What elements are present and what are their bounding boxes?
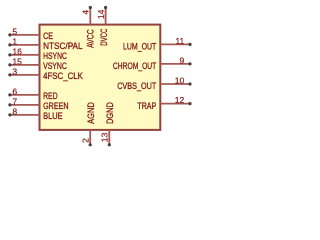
svg-text:7: 7 (12, 96, 17, 106)
pin 9 CHROM_OUT (113, 56, 192, 71)
pin 15 VSYNC (8, 56, 67, 70)
pin 7 GREEN (8, 96, 68, 110)
pin 13 DGND (99, 102, 115, 146)
svg-text:2: 2 (81, 138, 91, 143)
svg-text:BLUE: BLUE (43, 110, 63, 121)
pin 6 RED (8, 86, 57, 100)
svg-text:AGND: AGND (85, 102, 96, 124)
svg-text:10: 10 (175, 76, 185, 86)
svg-text:CHROM_OUT: CHROM_OUT (113, 60, 157, 71)
svg-text:11: 11 (175, 36, 184, 46)
pin 4 AVCC (81, 6, 96, 48)
pin 5 CE (8, 26, 53, 40)
svg-text:LUM_OUT: LUM_OUT (123, 40, 157, 51)
svg-text:CVBS_OUT: CVBS_OUT (117, 80, 156, 91)
pin 2 AGND (81, 102, 96, 146)
svg-text:4FSC_CLK: 4FSC_CLK (43, 70, 83, 81)
pin 10 CVBS_OUT (117, 76, 191, 91)
pin 11 LUM_OUT (123, 36, 192, 51)
pin 16 HSYNC (8, 46, 67, 60)
pin 14 DVCC (96, 6, 109, 46)
svg-text:14: 14 (96, 9, 106, 19)
pin 8 BLUE (8, 106, 62, 120)
svg-text:12: 12 (175, 95, 185, 105)
svg-text:TRAP: TRAP (137, 100, 156, 111)
svg-text:13: 13 (99, 132, 109, 142)
svg-text:DGND: DGND (104, 102, 115, 124)
svg-text:6: 6 (12, 86, 17, 96)
pin 12 TRAP (137, 95, 191, 111)
svg-text:3: 3 (12, 66, 17, 76)
svg-text:8: 8 (12, 106, 17, 116)
pin 1 NTSC/PAL (8, 36, 82, 50)
svg-text:AVCC: AVCC (85, 29, 96, 48)
svg-text:5: 5 (12, 26, 17, 36)
svg-text:4: 4 (81, 10, 91, 15)
svg-text:15: 15 (12, 56, 22, 66)
svg-text:DVCC: DVCC (98, 28, 109, 45)
svg-text:16: 16 (12, 46, 22, 56)
svg-text:1: 1 (12, 36, 17, 46)
pin 3 4FSC_CLK (8, 66, 83, 80)
IC body U1 (40, 25, 161, 130)
svg-text:9: 9 (180, 56, 185, 66)
